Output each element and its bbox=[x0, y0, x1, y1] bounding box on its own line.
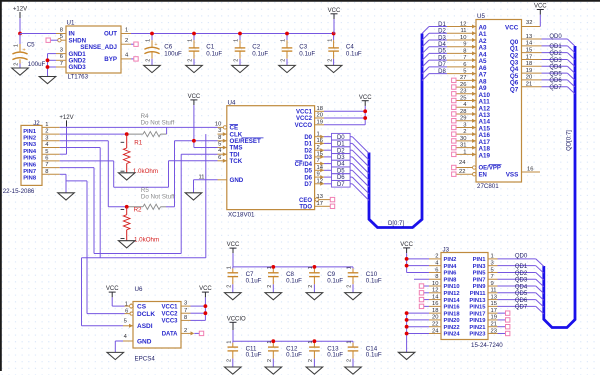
node C12 junction bbox=[271, 339, 275, 343]
svg-text:VCCO: VCCO bbox=[295, 123, 313, 129]
svg-text:0.1uF: 0.1uF bbox=[366, 352, 382, 359]
bus label D[0:7] bbox=[388, 221, 404, 227]
node C9 junction bbox=[313, 265, 317, 269]
wire PIN1 to U4 CE bbox=[60, 126, 218, 128]
U4 pin GND (11) bbox=[198, 174, 243, 184]
wire J3 QD3 (node QD3) bbox=[498, 278, 536, 284]
svg-text:C5: C5 bbox=[27, 41, 35, 48]
svg-text:2: 2 bbox=[267, 359, 273, 362]
svg-text:QD3: QD3 bbox=[549, 58, 562, 64]
U5 A17 no-connect bbox=[452, 139, 456, 143]
U5 pin Q5 (19) bbox=[510, 68, 542, 80]
svg-text:PIN11: PIN11 bbox=[470, 291, 487, 297]
IC U5 body bbox=[476, 20, 522, 183]
svg-text:VCC2: VCC2 bbox=[296, 116, 313, 122]
U4 pin OE/RESET (8) bbox=[218, 135, 264, 145]
svg-text:XC18V01: XC18V01 bbox=[228, 212, 255, 219]
wire VCC to CS bbox=[112, 305, 124, 307]
svg-text:Q7: Q7 bbox=[510, 87, 519, 94]
svg-text:31: 31 bbox=[460, 143, 466, 149]
wire J3 ground pins bbox=[407, 313, 429, 352]
label J2 bbox=[33, 120, 40, 127]
connector J2 body bbox=[21, 125, 42, 185]
node J3 PIN24 junction bbox=[405, 332, 409, 336]
U1 BYP no-connect bbox=[131, 57, 138, 61]
J3 pin PIN10 (10) bbox=[429, 281, 460, 290]
label 0.1uF (C11) bbox=[246, 352, 262, 359]
svg-text:1: 1 bbox=[227, 266, 233, 269]
wire CLK net to U6 ASDI bbox=[82, 258, 124, 326]
J3 PIN17 no-connect bbox=[498, 311, 510, 315]
svg-text:5: 5 bbox=[60, 34, 63, 40]
U4 pin CE (10) bbox=[215, 121, 238, 131]
U6 pin VCC1 (3) bbox=[161, 301, 190, 311]
ground (U4) bbox=[185, 192, 202, 200]
net label D8 (node D8) bbox=[429, 69, 447, 75]
U5 pin Q3 (17) bbox=[510, 54, 542, 66]
capacitor C8 bbox=[267, 266, 279, 292]
ground (U6) bbox=[107, 352, 124, 360]
label C10 bbox=[366, 271, 378, 278]
wire D5 bus tap bbox=[352, 170, 369, 187]
svg-text:PIN10: PIN10 bbox=[444, 284, 460, 290]
svg-text:16: 16 bbox=[527, 167, 533, 173]
U5 pin A8 (27) bbox=[457, 75, 488, 85]
svg-text:+: + bbox=[23, 48, 26, 54]
U5 pin Q2 (15) bbox=[510, 47, 542, 59]
svg-text:J2: J2 bbox=[33, 120, 40, 127]
svg-text:1: 1 bbox=[45, 122, 48, 128]
svg-text:PIN2: PIN2 bbox=[23, 136, 36, 142]
svg-text:2: 2 bbox=[327, 59, 333, 62]
U1 pin IN (8) bbox=[56, 27, 75, 37]
svg-text:PIN19: PIN19 bbox=[469, 318, 486, 324]
J3 pin PIN14 (14) bbox=[429, 294, 460, 303]
U5 A19 no-connect bbox=[452, 152, 456, 156]
svg-text:7: 7 bbox=[491, 274, 494, 280]
svg-text:100uF: 100uF bbox=[28, 61, 46, 68]
svg-text:12: 12 bbox=[432, 288, 438, 294]
svg-text:Do Not Stuff: Do Not Stuff bbox=[141, 120, 175, 127]
svg-text:3: 3 bbox=[184, 301, 187, 307]
svg-text:D7: D7 bbox=[438, 62, 446, 68]
label R4 bbox=[141, 113, 149, 120]
svg-text:QD5: QD5 bbox=[515, 291, 528, 297]
J3 pin PIN15 (15) bbox=[469, 301, 497, 310]
U5 A12 no-connect bbox=[452, 105, 456, 109]
svg-text:6: 6 bbox=[60, 54, 63, 60]
svg-text:CEO: CEO bbox=[299, 198, 312, 204]
svg-text:0.1uF: 0.1uF bbox=[246, 352, 262, 359]
J3 pin PIN5 (5) bbox=[473, 267, 498, 276]
svg-text:ASDI: ASDI bbox=[137, 323, 153, 330]
label C8 bbox=[286, 271, 294, 278]
svg-text:GND3: GND3 bbox=[69, 64, 87, 71]
svg-text:EN: EN bbox=[479, 172, 487, 178]
svg-text:20: 20 bbox=[317, 113, 323, 119]
power VCC (J3) bbox=[400, 242, 413, 273]
power +12V (top left) bbox=[13, 7, 27, 34]
ground (C12) bbox=[265, 367, 282, 375]
U5 EN no-connect bbox=[452, 172, 456, 176]
svg-text:12: 12 bbox=[460, 21, 466, 27]
svg-text:11: 11 bbox=[460, 28, 466, 34]
power VCC (top mid) bbox=[328, 8, 341, 34]
J3 PIN21 no-connect bbox=[498, 325, 510, 329]
resistor R4 (do not stuff) bbox=[127, 127, 167, 136]
net label QD3 (node QD3) bbox=[542, 58, 568, 64]
svg-text:TDO: TDO bbox=[299, 205, 312, 211]
svg-text:7: 7 bbox=[317, 158, 320, 164]
wire VCC to TMS bbox=[194, 147, 218, 149]
U1 pin SENSE_ADJ (2) bbox=[80, 38, 131, 51]
ground (C4) bbox=[325, 65, 342, 73]
U5 pin A3 (9) bbox=[447, 42, 487, 52]
resistor R1 bbox=[121, 134, 131, 173]
node R4/R1 junction bbox=[125, 132, 129, 136]
svg-text:2: 2 bbox=[347, 359, 353, 362]
svg-text:QD2: QD2 bbox=[549, 51, 562, 57]
resistor R2 bbox=[121, 207, 131, 241]
wire D3 bus tap bbox=[352, 157, 369, 174]
J3 pin PIN17 (17) bbox=[469, 308, 497, 317]
label C5 bbox=[27, 41, 35, 48]
label C6 bbox=[164, 44, 172, 51]
svg-text:QD6: QD6 bbox=[515, 298, 528, 304]
U5 A14 no-connect bbox=[452, 119, 456, 123]
svg-text:2: 2 bbox=[267, 285, 273, 288]
wire D8 bus tap bbox=[422, 74, 429, 81]
svg-text:2: 2 bbox=[146, 59, 152, 62]
wire QD6 bus tap bbox=[567, 80, 574, 87]
label C7 bbox=[246, 271, 254, 278]
wire J3 QD6 (node QD6) bbox=[498, 298, 536, 304]
svg-text:PIN20: PIN20 bbox=[444, 318, 460, 324]
U5 OE/VPP no-connect bbox=[452, 165, 456, 169]
wire PIN6 to U4 TCK bbox=[60, 161, 218, 187]
label 15-24-7240 bbox=[471, 342, 503, 349]
U5 pin EN (22) bbox=[457, 169, 487, 178]
U5 A10 no-connect bbox=[452, 92, 456, 96]
wire QD3 bus tap bbox=[567, 59, 574, 66]
capacitor C12 bbox=[267, 341, 279, 367]
svg-text:QD6: QD6 bbox=[549, 78, 562, 84]
svg-text:U1: U1 bbox=[67, 20, 75, 27]
U5 pin OE/VPP (24) bbox=[457, 160, 502, 172]
capacitor C9 bbox=[308, 266, 320, 292]
U4 CEO no-connect bbox=[330, 197, 334, 201]
wire D4 bus tap bbox=[422, 47, 429, 54]
node junction at C5 bbox=[18, 32, 22, 36]
svg-text:13: 13 bbox=[491, 294, 497, 300]
U1 pin SHDN (5) bbox=[58, 34, 87, 44]
node junction C1 bbox=[192, 32, 196, 36]
U5 pin Q6 (20) bbox=[510, 75, 542, 87]
svg-text:15: 15 bbox=[317, 152, 323, 158]
svg-text:1: 1 bbox=[14, 44, 20, 47]
svg-text:QD[0:7]: QD[0:7] bbox=[566, 130, 572, 151]
node VCC1 junction bbox=[363, 109, 367, 113]
label U6 bbox=[135, 286, 143, 293]
svg-text:LT1763: LT1763 bbox=[68, 73, 89, 80]
U5 A13 no-connect bbox=[452, 112, 456, 116]
U4 pin D0 (1) bbox=[304, 131, 324, 141]
svg-text:28: 28 bbox=[460, 109, 466, 115]
net label QD5 (node QD5) bbox=[542, 71, 568, 77]
ground (C3) bbox=[279, 65, 296, 73]
J3 pin PIN13 (13) bbox=[469, 294, 497, 303]
svg-text:19: 19 bbox=[491, 315, 497, 321]
wire +12V to U1 IN bbox=[20, 33, 56, 35]
label 0.1uF (C8) bbox=[286, 277, 302, 284]
svg-text:16: 16 bbox=[317, 138, 323, 144]
U6 pin VCC3 (8) bbox=[161, 315, 190, 325]
svg-text:2: 2 bbox=[308, 285, 314, 288]
svg-text:17: 17 bbox=[491, 308, 497, 314]
svg-text:1: 1 bbox=[327, 39, 333, 42]
svg-text:QD1: QD1 bbox=[549, 44, 562, 50]
label EPCS4 bbox=[135, 355, 156, 362]
svg-text:1: 1 bbox=[491, 254, 494, 260]
wire VCC to J3 PIN2/PIN4/PIN6 bbox=[407, 259, 429, 273]
svg-text:9: 9 bbox=[463, 42, 466, 48]
U5 pin A9 (26) bbox=[457, 82, 488, 92]
label U1 bbox=[67, 20, 75, 27]
wire J3 QD3 bus tap bbox=[536, 279, 544, 287]
J3 pin PIN6 (6) bbox=[429, 267, 457, 276]
U4 pin D7 (12) bbox=[304, 178, 324, 188]
svg-text:QD4: QD4 bbox=[549, 65, 562, 71]
label 22-15-2086 bbox=[3, 188, 35, 195]
U5 A9 no-connect bbox=[452, 85, 456, 89]
svg-text:0.1uF: 0.1uF bbox=[246, 277, 262, 284]
U5 pin Q1 (14) bbox=[510, 41, 542, 53]
U6 DATA no-connect bbox=[194, 331, 203, 335]
svg-text:0.1uF: 0.1uF bbox=[206, 50, 222, 57]
wire D2 bus tap bbox=[422, 33, 429, 40]
svg-text:1: 1 bbox=[347, 266, 353, 269]
svg-text:2: 2 bbox=[308, 359, 314, 362]
label 0.1uF (C9) bbox=[327, 277, 343, 284]
wire VCC rail (U1 OUT) bbox=[131, 33, 334, 35]
J3 pin PIN22 (22) bbox=[429, 322, 460, 331]
wire J3 QD1 bus tap bbox=[536, 266, 544, 274]
wire J3 QD0 (node QD0) bbox=[498, 254, 536, 260]
J3 pin PIN21 (21) bbox=[469, 322, 497, 331]
svg-text:7: 7 bbox=[60, 61, 63, 67]
svg-text:R2: R2 bbox=[134, 207, 142, 214]
capacitor C3 bbox=[281, 34, 293, 66]
svg-text:0.1uF: 0.1uF bbox=[366, 277, 382, 284]
U5 pin A12 (4) bbox=[457, 102, 491, 112]
svg-text:1: 1 bbox=[227, 341, 233, 344]
capacitor C4 bbox=[327, 34, 339, 66]
wire PIN4 to CLK net bbox=[60, 134, 206, 258]
svg-text:32: 32 bbox=[526, 20, 532, 26]
svg-text:10: 10 bbox=[432, 281, 438, 287]
svg-text:U6: U6 bbox=[135, 286, 143, 293]
U6 pin DATA (2) bbox=[162, 328, 195, 338]
label 0.1uF (C7) bbox=[246, 277, 262, 284]
svg-text:CS: CS bbox=[137, 304, 147, 311]
label 1.0kOhm (R2) bbox=[134, 237, 159, 244]
label 100uF (C6) bbox=[164, 50, 182, 57]
node C13 junction bbox=[313, 339, 317, 343]
svg-text:22: 22 bbox=[459, 169, 465, 175]
IC U4 body bbox=[227, 106, 315, 210]
svg-text:6: 6 bbox=[435, 267, 438, 273]
svg-text:2: 2 bbox=[14, 63, 20, 66]
wire J3 QD4 bus tap bbox=[536, 286, 544, 294]
J3 pin PIN9 (9) bbox=[473, 281, 498, 290]
node J3 PIN18 junction bbox=[405, 311, 409, 315]
U5 A18 no-connect bbox=[452, 145, 456, 149]
svg-text:18: 18 bbox=[432, 308, 438, 314]
net label D0 (node D0) bbox=[324, 133, 352, 140]
wire J3 QD2 (node QD2) bbox=[498, 271, 536, 277]
wire QD4 bus tap bbox=[567, 66, 574, 73]
wire U4 VCC pins bbox=[324, 106, 365, 125]
U1 SHDN no-connect bbox=[46, 38, 58, 42]
svg-text:22-15-2086: 22-15-2086 bbox=[3, 188, 35, 195]
svg-text:20: 20 bbox=[526, 75, 532, 81]
net label D6 (node D6) bbox=[429, 55, 447, 61]
ground (C13) bbox=[306, 367, 323, 375]
svg-text:21: 21 bbox=[491, 322, 497, 328]
net label QD6 (node QD6) bbox=[542, 78, 568, 84]
label C14 bbox=[366, 345, 378, 352]
svg-text:D7: D7 bbox=[304, 182, 312, 188]
capacitor C6 bbox=[144, 34, 159, 66]
svg-text:7: 7 bbox=[45, 162, 48, 168]
svg-text:29: 29 bbox=[460, 116, 466, 122]
svg-text:14: 14 bbox=[317, 165, 324, 171]
svg-text:PIN13: PIN13 bbox=[469, 298, 486, 304]
svg-text:1: 1 bbox=[234, 39, 240, 42]
power VCC (U4 right) bbox=[359, 95, 372, 106]
svg-text:D6: D6 bbox=[438, 55, 446, 61]
svg-text:0.1uF: 0.1uF bbox=[327, 277, 343, 284]
J3 pin PIN23 (23) bbox=[469, 328, 497, 337]
svg-text:PIN7: PIN7 bbox=[23, 169, 36, 175]
svg-text:15-24-7240: 15-24-7240 bbox=[471, 342, 503, 349]
svg-text:1: 1 bbox=[188, 39, 194, 42]
svg-text:PIN9: PIN9 bbox=[473, 284, 487, 290]
ground (J2 PIN8) bbox=[58, 192, 75, 200]
U5 pin A5 (7) bbox=[447, 55, 487, 65]
svg-text:BYP: BYP bbox=[104, 56, 117, 63]
svg-text:6: 6 bbox=[463, 62, 466, 68]
svg-text:PIN21: PIN21 bbox=[469, 325, 486, 331]
J3 pin PIN3 (3) bbox=[473, 260, 498, 269]
node VCC2 junction bbox=[363, 116, 367, 120]
net label D6 (node D6) bbox=[324, 174, 352, 181]
wire VCC to OE/RESET bbox=[175, 140, 218, 142]
svg-text:VCCIO: VCCIO bbox=[227, 316, 246, 322]
bus QD[0:7] bbox=[544, 46, 575, 328]
svg-text:PIN8: PIN8 bbox=[444, 277, 458, 283]
U4 pin CF/D4 (7) bbox=[295, 158, 324, 168]
ground (U1) bbox=[39, 76, 56, 84]
wire J3 QD2 bus tap bbox=[536, 272, 544, 280]
U5 pin Q0 (13) bbox=[510, 34, 542, 46]
svg-text:7: 7 bbox=[184, 308, 187, 314]
svg-text:10: 10 bbox=[215, 121, 221, 127]
U5 A15 no-connect bbox=[452, 125, 456, 129]
U4 TDO no-connect bbox=[330, 204, 334, 208]
U5 pin A0 (12) bbox=[447, 21, 487, 31]
svg-text:3: 3 bbox=[45, 135, 48, 141]
U6 pin GND (4) bbox=[123, 334, 152, 346]
svg-text:VCC: VCC bbox=[188, 94, 201, 100]
svg-text:PIN8: PIN8 bbox=[23, 176, 37, 182]
svg-text:D1: D1 bbox=[438, 22, 446, 28]
wire PIN2 to R4 bbox=[60, 133, 127, 135]
label C1 bbox=[206, 44, 214, 51]
node GND3 junction bbox=[46, 65, 50, 69]
svg-text:8: 8 bbox=[463, 48, 466, 54]
capacitor C11 bbox=[227, 341, 239, 367]
svg-text:PIN5: PIN5 bbox=[473, 271, 487, 277]
U1 pin BYP (4) bbox=[104, 53, 131, 63]
svg-text:5: 5 bbox=[45, 149, 48, 155]
ground (C5) bbox=[12, 68, 29, 76]
U5 A8 no-connect bbox=[452, 78, 456, 82]
power VCCIO (C11 rail) bbox=[227, 316, 246, 341]
svg-text:QD1: QD1 bbox=[515, 264, 528, 270]
svg-text:PIN1: PIN1 bbox=[473, 257, 487, 263]
svg-text:24: 24 bbox=[432, 328, 439, 334]
svg-text:+12V: +12V bbox=[13, 7, 27, 13]
svg-text:2: 2 bbox=[227, 359, 233, 362]
svg-text:+: + bbox=[154, 42, 157, 48]
U5 A16 no-connect bbox=[452, 132, 456, 136]
capacitor C13 bbox=[308, 341, 320, 367]
svg-text:TCK: TCK bbox=[230, 158, 243, 165]
svg-text:1.0kOhm: 1.0kOhm bbox=[134, 237, 159, 244]
svg-text:QD0: QD0 bbox=[515, 254, 528, 260]
J2 pin PIN2 (2) bbox=[23, 129, 60, 142]
U4 pin VCCO (19) bbox=[295, 119, 324, 129]
svg-text:QD7: QD7 bbox=[549, 85, 562, 91]
label C11 bbox=[246, 345, 257, 352]
ground (C7) bbox=[225, 292, 242, 300]
U4 pin CEO (13) bbox=[299, 194, 330, 204]
label C2 bbox=[252, 44, 260, 51]
U4 pin TDO (17) bbox=[299, 201, 330, 211]
svg-text:8: 8 bbox=[60, 27, 63, 33]
net label QD4 (node QD4) bbox=[542, 65, 568, 71]
svg-text:0.1uF: 0.1uF bbox=[286, 277, 302, 284]
svg-text:9: 9 bbox=[317, 172, 320, 178]
label C4 bbox=[346, 44, 354, 51]
J3 pin PIN8 (8) bbox=[429, 274, 457, 283]
node J3 PIN2 junction bbox=[405, 257, 409, 261]
label LT1763 bbox=[68, 73, 89, 80]
svg-text:D2: D2 bbox=[438, 29, 446, 35]
svg-text:VCC: VCC bbox=[328, 8, 341, 14]
net label D5 (node D5) bbox=[324, 167, 352, 174]
svg-text:2: 2 bbox=[188, 59, 194, 62]
svg-text:8: 8 bbox=[435, 274, 438, 280]
wire D1 bus tap bbox=[352, 143, 369, 160]
U5 pin A10 (23) bbox=[457, 89, 491, 99]
op-amp U1 body bbox=[66, 26, 121, 73]
U6 pin CS (1) bbox=[125, 301, 147, 310]
power VCC (U5) bbox=[534, 4, 547, 27]
node junction C3 bbox=[285, 32, 289, 36]
net label D1 (node D1) bbox=[429, 22, 447, 28]
